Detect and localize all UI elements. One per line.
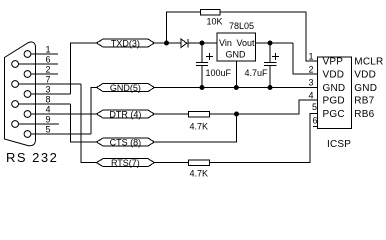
wire TXD flag to node A [154,42,181,44]
wire pin9 stub [19,123,60,125]
connector J1 ICSP box [318,57,352,128]
diode D1 cathode bar [187,39,189,48]
capacitor C2 4.7uF wire top [269,43,271,63]
connector CN1 DB9 shell [5,42,36,146]
svg-text:PGC: PGC [323,109,345,120]
wire ICSP pin6 stub [313,126,318,128]
wire pin5 to GND vertical [31,133,91,135]
CN1 pin 1 circle [24,51,31,58]
wire pin4 to DTR flag [31,113,97,115]
capacitor C2 wire bottom [269,66,271,88]
CN1 pin 7 circle [12,81,19,88]
svg-text:4.7uF: 4.7uF [245,68,269,78]
resistor R3 4.7K [189,160,210,166]
svg-text:100uF: 100uF [206,68,232,78]
svg-text:VDD: VDD [354,70,376,81]
wire node C to VDD [293,43,318,74]
wire R2 to PGD [209,100,317,114]
svg-text:4.7K: 4.7K [190,169,209,179]
svg-text:Vin: Vin [219,38,232,48]
svg-text:78L05: 78L05 [229,21,254,31]
svg-text:RB6: RB6 [354,109,374,120]
svg-text:PGD: PGD [323,96,345,107]
node A junction dot [165,41,169,45]
junction dot U1GND/GND [234,86,238,90]
svg-text:VDD: VDD [323,70,345,81]
svg-text:6: 6 [312,116,317,126]
svg-text:3: 3 [308,78,313,88]
svg-text:1: 1 [308,52,313,62]
svg-text:1: 1 [45,45,50,55]
svg-text:CTS (8): CTS (8) [110,138,142,148]
capacitor C1 plus sign [206,56,213,58]
svg-text:6: 6 [45,55,50,65]
node B junction dot [200,41,204,45]
svg-text:4: 4 [308,91,313,101]
CN1 pin 8 circle [12,101,19,108]
wire pin2 stub [31,73,58,75]
capacitor C2 plates [264,62,276,64]
svg-text:ICSP: ICSP [327,139,351,150]
wire RTS flag to R3 [154,162,188,164]
wire RTS vertical dropper [81,84,97,163]
wire U1 GND pin down [235,61,237,88]
wire node A riser to top rail [167,12,201,43]
wire GND vertical riser [91,88,97,135]
svg-text:TXD(3): TXD(3) [111,39,140,49]
svg-text:2: 2 [308,65,313,75]
svg-text:RB7: RB7 [354,96,374,107]
wire R3 to PGC [209,114,317,163]
svg-text:DTR (4): DTR (4) [109,110,141,120]
net flag CTS(8) [97,138,155,146]
svg-text:MCLR: MCLR [354,57,383,68]
wire pin1 stub [31,53,58,55]
wire D1 to Vin [188,42,217,44]
CN1 pin 4 circle [24,111,31,118]
capacitor C1 wire bottom [201,66,203,88]
CN1 pin 9 circle [12,121,19,128]
node D junction dot [235,112,239,116]
wire pin8 to CTS vertical [19,103,71,105]
CN1 pin 3 circle [24,91,31,98]
junction dot C2/GND [268,86,272,90]
svg-text:4.7K: 4.7K [190,122,209,132]
capacitor C1 100uF wire top [201,43,203,63]
net flag TXD(3) [97,39,155,47]
svg-text:RS 232: RS 232 [6,150,58,165]
net flag RTS(7) [97,159,155,167]
svg-text:VPP: VPP [323,57,344,68]
svg-text:GND: GND [354,83,377,94]
svg-text:5: 5 [45,125,50,135]
svg-text:10K: 10K [207,17,223,27]
wire CTS flag to node D [154,114,236,142]
wire TXD vertical riser [71,43,97,94]
svg-text:7: 7 [45,75,50,85]
ground rail GND net [154,87,317,89]
capacitor C2 plus sign [272,56,279,58]
wire top rail to VPP [220,12,317,61]
svg-text:5: 5 [312,102,317,112]
node C junction dot [268,41,272,45]
wire Vout to node C [256,42,293,44]
junction dot C1/GND [200,86,204,90]
wire CTS vertical dropper [71,104,97,142]
svg-text:4: 4 [45,105,50,115]
svg-text:9: 9 [45,115,50,125]
capacitor C1 plates [196,62,208,64]
regulator U1 78L05 box [217,33,256,61]
resistor R1 10K [200,9,220,15]
svg-text:3: 3 [45,85,50,95]
CN1 pin 2 circle [24,71,31,78]
net flag DTR(4) [97,110,155,118]
wire DTR flag to R2 [154,113,188,115]
wire pin7 to RTS vertical [19,83,82,85]
svg-text:Vout: Vout [236,38,255,48]
svg-text:GND: GND [323,83,346,94]
diode D1 [181,39,187,48]
svg-text:GND(5): GND(5) [110,83,141,93]
svg-text:RTS(7): RTS(7) [111,158,140,168]
CN1 pin 5 circle [24,131,31,138]
wire pin6 stub [19,63,59,65]
wire pin3 to TXD vertical [31,93,71,95]
svg-text:2: 2 [45,65,50,75]
CN1 pin 6 circle [12,61,19,68]
net flag GND(5) [97,84,155,92]
resistor R2 4.7K [189,111,210,117]
svg-text:GND: GND [226,50,247,60]
svg-text:8: 8 [45,95,50,105]
